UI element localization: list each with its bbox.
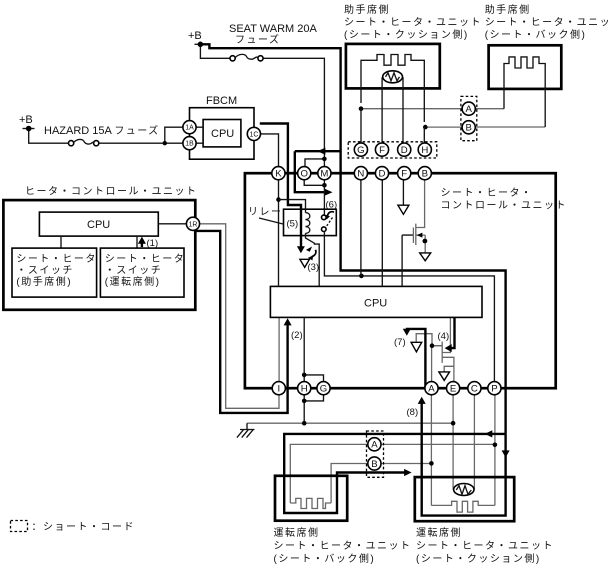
connector E [447,382,460,395]
svg-text:フューズ: フューズ [235,33,281,46]
thick current path: FBCM to relay coil [260,124,301,248]
wire: 1A/1B stubs [196,127,203,143]
open triangle below Q1 [420,253,431,261]
wire: HAZARD fuse feed thin [29,131,183,143]
svg-text:D: D [401,145,408,156]
node: hazard branch to 1A [165,127,183,143]
thermostat (passenger) [383,71,403,83]
connector I [272,382,285,395]
svg-text:B: B [465,123,471,134]
svg-text:(7): (7) [394,337,406,348]
open triangle below Q2 [439,372,450,381]
svg-text:A: A [371,440,378,451]
svg-text:運転席側: 運転席側 [274,526,320,539]
wire gray: node to open triangle (7) side [416,334,442,346]
relay switch contacts (6) [322,215,327,220]
connector H (unit) [418,143,431,156]
svg-text:P: P [491,384,497,395]
wire gray: driver back heater element [290,498,331,508]
thick current path: power rail branch into driver back region [284,434,505,513]
wire: M loop to relay switch [323,185,325,215]
driver seat heater switch box [100,248,184,297]
connector O [298,167,311,180]
wire gray: A column up to transistor node [431,346,433,382]
connector K [272,167,285,180]
wire gray: B to passenger back unit [475,126,545,128]
wire gray: B column to output transistor [416,180,424,228]
connector B (ctrl) [418,167,431,180]
svg-text:(4): (4) [438,331,450,342]
control CPU box [39,212,158,236]
svg-text:H: H [421,145,428,156]
heater control unit (column) box [3,200,195,310]
svg-text:D: D [379,169,386,180]
svg-text:O: O [300,169,307,180]
thick line (4) [451,318,455,348]
thick current path: detour around K/O/M with arrows [295,151,341,192]
wire gray: A to passenger back unit [475,108,504,110]
connector P [488,382,501,395]
thick current path: heater control unit loop via 1R [196,231,288,413]
wire: CPU to 1R [158,223,186,225]
wire gray: A-line from heater cushion to connector A [200,109,545,512]
svg-text:B: B [422,169,428,180]
svg-text:+B: +B [19,114,33,126]
wire: O/M bottom loop [304,180,324,186]
connector B (short) [368,457,381,470]
wire: 1C to K [261,134,279,167]
wire: Q1 gate to CPU [402,235,413,286]
wire: N column [360,180,362,276]
svg-text:N: N [357,169,364,180]
connector D (ctrl) [375,167,388,180]
svg-text:助手席側: 助手席側 [485,3,531,16]
ground [246,423,248,429]
svg-text:：ショート・コード: ：ショート・コード [32,522,136,533]
connector N [354,167,367,180]
fuse SEAT WARM 20A [230,54,263,61]
svg-text:コントロール・ユニット: コントロール・ユニット [441,201,568,212]
svg-text:・スイッチ: ・スイッチ [16,265,74,277]
svg-text:G: G [357,145,364,156]
dashed short connector box top [461,96,477,140]
svg-text:E: E [450,384,456,395]
connector 1R [186,217,199,230]
svg-text:A: A [428,384,435,395]
connector 1C [247,127,260,140]
connector 1B [183,137,196,150]
svg-text:(5): (5) [287,219,299,230]
Q1 gate bar and source arrow [412,228,414,244]
wire gray: dashed-B link wire [331,464,431,504]
control unit CPU box [270,286,482,317]
svg-text:シート・ヒータ・ユニット: シート・ヒータ・ユニット [344,17,482,29]
dashed short connector box bottom [367,431,384,477]
thermostat (driver) [454,484,474,496]
connector A (short) [368,438,381,451]
svg-text:シート・ヒータ: シート・ヒータ [16,253,97,265]
svg-text:(シート・バック側): (シート・バック側) [485,28,587,41]
connector M [318,167,331,180]
svg-text:・スイッチ: ・スイッチ [105,265,163,277]
wire gray: E column to ground and thermostat [452,395,454,490]
svg-text:(2): (2) [291,330,303,341]
FBCM CPU box [203,120,241,147]
connector A (bottom row) [425,382,438,395]
driver back heater unit box [275,476,347,521]
wire: CPU to driver switch [136,236,138,248]
svg-text:F: F [379,145,385,156]
wire: SEAT WARM fuse feed thin [200,46,324,156]
svg-text:C: C [471,384,478,395]
svg-text:A: A [465,104,472,115]
svg-text:M: M [320,169,328,180]
wire: D column to CPU [381,180,383,287]
wire gray: driver cushion heater element [431,501,495,512]
wire gray: 1R loop to I [200,224,279,408]
arrow (1) up [141,243,143,248]
curved arrow at relay switch [327,212,334,217]
svg-text:(6): (6) [326,200,338,211]
wire gray: C column down to thermostat [473,395,475,490]
svg-text:CPU: CPU [364,298,387,310]
thick line (7) [407,329,425,388]
dashed connector box G F D H [348,142,437,158]
svg-text:H: H [301,384,308,395]
connector C [468,382,481,395]
node A column transistor [430,343,435,348]
connector 1A [183,121,196,134]
connector G (bottom) [317,382,330,395]
FBCM box [190,108,255,160]
thick current path: down into driver cushion unit [422,404,506,516]
wire gray: P column down to heater element [494,395,496,506]
wire: relay coil bottom to CPU (3) [306,233,320,286]
svg-text:シート・ヒータ・ユニット: シート・ヒータ・ユニット [485,17,613,29]
svg-text:シート・ヒータ: シート・ヒータ [105,253,186,265]
svg-text:HAZARD 15A フューズ: HAZARD 15A フューズ [44,124,160,137]
fuse HAZARD 15A [69,139,99,145]
svg-text:(助手席側): (助手席側) [16,275,72,288]
wire gray: E up to transistor source [443,357,454,381]
legend short code [11,521,28,532]
svg-text:シート・ヒータ・: シート・ヒータ・ [441,187,533,199]
connector G (unit) [354,143,367,156]
svg-text:助手席側: 助手席側 [344,3,390,16]
heater element (cushion passenger) [361,55,424,123]
svg-text:F: F [401,169,407,180]
open triangle (3) [300,259,310,267]
transistor Q2 (driver output) [433,318,451,363]
passenger seat heater switch box [12,248,97,297]
wire: H column with G loop [303,318,305,423]
svg-text:K: K [275,169,282,180]
wires from unit to G F D H [361,77,424,143]
wire: F stub with open triangle [402,180,404,205]
connector F (unit) [375,143,388,156]
wire: relay switch output to P column [324,232,494,382]
svg-text:G: G [320,384,327,395]
connector A (top) [462,102,475,115]
wire: CPU to passenger switch [60,236,62,248]
heater element (back passenger) [504,57,545,127]
svg-text:1A: 1A [185,125,194,132]
relay box [284,209,337,235]
relay coil [306,213,310,234]
svg-text:CPU: CPU [87,219,110,231]
svg-text:B: B [371,459,377,470]
svg-text:ヒータ・コントロール・ユニット: ヒータ・コントロール・ユニット [25,186,198,198]
svg-text:(3): (3) [308,262,320,273]
wire: fuse line to O/M top loop [305,156,324,167]
svg-text:1B: 1B [185,141,194,148]
connector H (bottom) [298,382,311,395]
svg-text:SEAT WARM 20A: SEAT WARM 20A [229,23,317,35]
wire: K to CPU with relay branch [278,180,280,287]
svg-text:(シート・クッション側): (シート・クッション側) [344,28,469,41]
arrow (2) up [284,318,292,325]
svg-text:I: I [277,384,280,395]
svg-text:+B: +B [188,30,202,42]
open triangle near (7) [411,342,422,352]
svg-text:シート・ヒータ・ユニット: シート・ヒータ・ユニット [274,540,412,552]
svg-text:(シート・クッション側): (シート・クッション側) [416,552,541,565]
svg-text:(8): (8) [407,407,419,418]
driver cushion heater unit box [415,477,514,521]
connector B (top) [462,121,475,134]
wire: K branch to relay coil [279,200,306,213]
seat heater control unit box [245,173,556,388]
thick current path: +B seat warm main feed [200,44,505,434]
svg-text:リレー: リレー [248,207,283,218]
svg-text:(運転席側): (運転席側) [105,275,161,288]
arrow (8) up [418,397,426,404]
transistor Q1 (passenger output) [416,224,425,253]
svg-text:1C: 1C [249,131,258,138]
svg-text:FBCM: FBCM [206,95,237,107]
junction dots on heater columns [359,106,364,111]
wire gray: A column down and into driver cushion unit [430,395,432,506]
passenger back heater unit box [489,45,562,89]
wire gray: dashed-A link wire [290,444,495,503]
svg-text:(シート・バック側): (シート・バック側) [274,552,376,565]
connector F (ctrl) [398,167,411,180]
wire gray: ground rail [247,422,453,424]
passenger cushion heater unit box [346,44,440,89]
svg-text:CPU: CPU [211,128,234,140]
svg-text:シート・ヒータ・ユニット: シート・ヒータ・ユニット [416,540,554,552]
connector D (unit) [398,143,411,156]
wire gray: B-line tap to connector B [425,126,462,128]
svg-text:運転席側: 運転席側 [416,526,462,539]
small arrow on (3) slant [306,247,312,252]
svg-text:1R: 1R [189,221,198,228]
wire gray: I to CPU [278,318,280,382]
